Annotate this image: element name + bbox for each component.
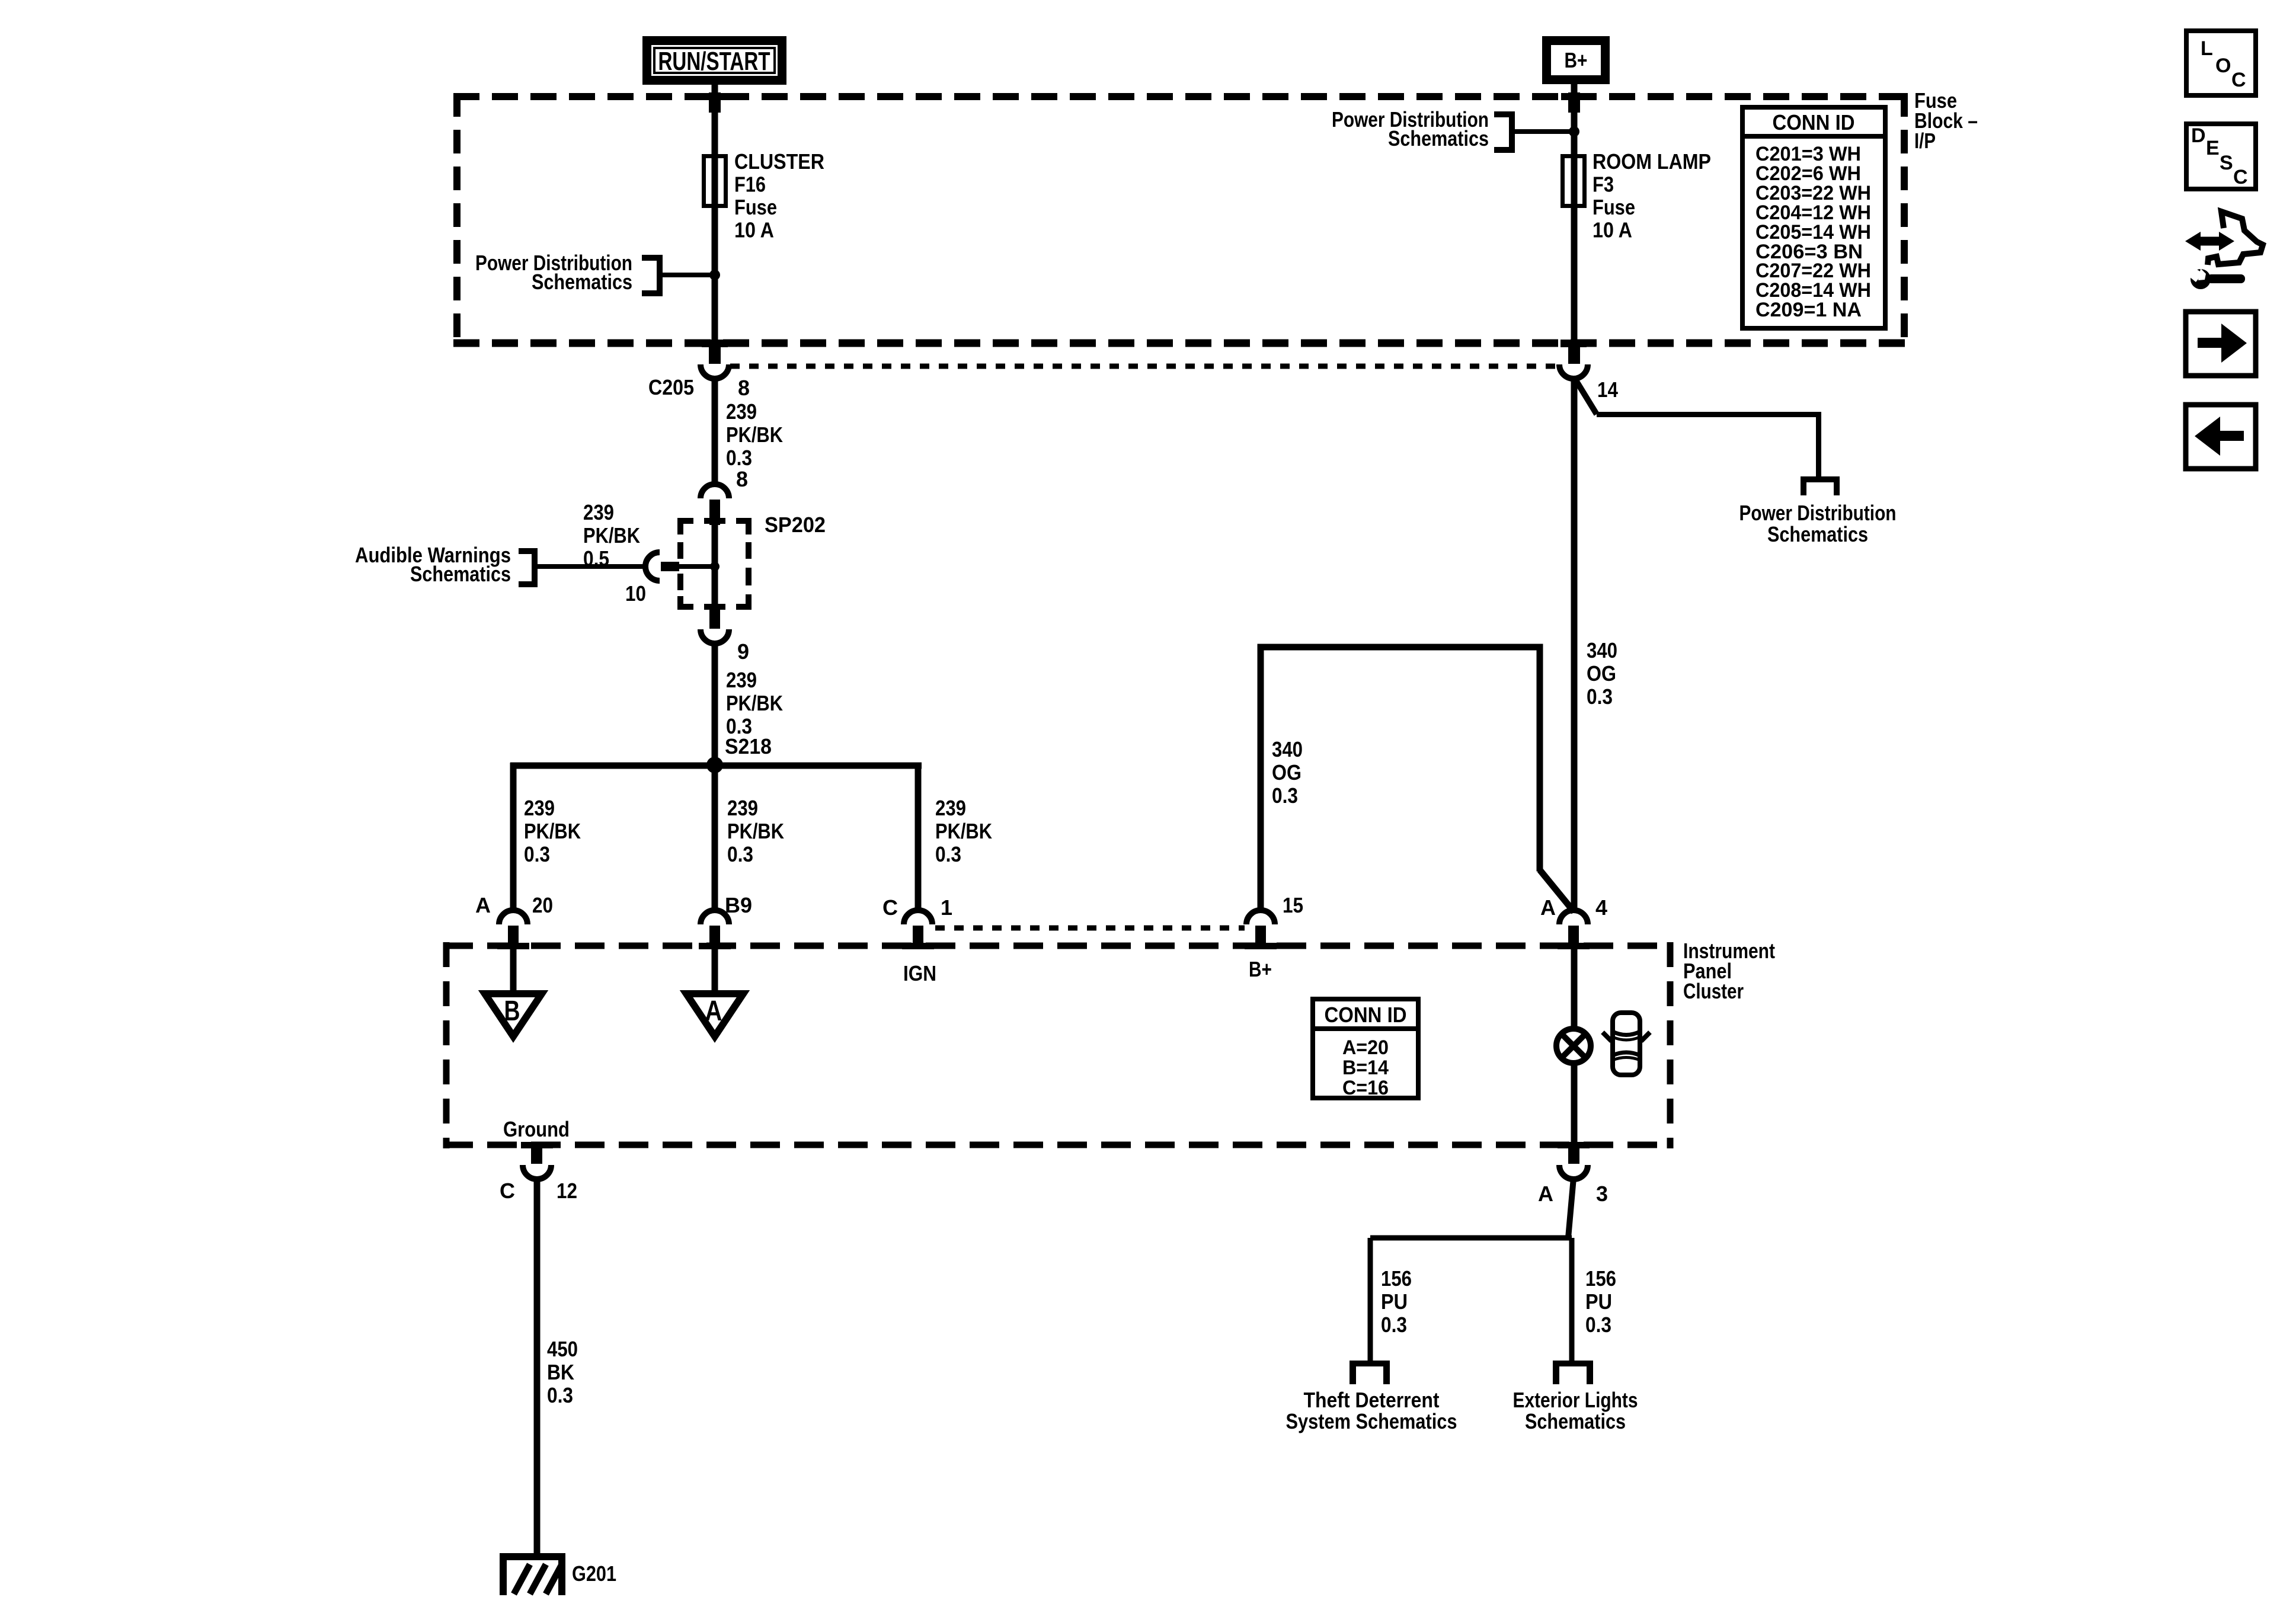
svg-text:239: 239 <box>726 668 757 692</box>
Instrument Panel Cluster dashed box <box>443 942 1673 1148</box>
svg-text:0.3: 0.3 <box>524 842 550 866</box>
reference Power Distribution Schematics (left) <box>475 251 715 296</box>
ground G201 <box>500 1553 565 1595</box>
svg-text:PK/BK: PK/BK <box>583 523 640 548</box>
reference Audible Warnings Schematics <box>355 543 645 587</box>
svg-text:L: L <box>2201 37 2213 60</box>
wire 9 to S218 <box>712 642 718 766</box>
svg-text:156: 156 <box>1585 1266 1616 1291</box>
connector 10 (cup and stub, horizontal) <box>645 552 712 581</box>
svg-text:A: A <box>475 893 491 917</box>
wire crossing ticks on dashed borders <box>497 93 1590 1148</box>
CONN ID table (cluster) <box>1313 999 1418 1099</box>
svg-text:D: D <box>2191 124 2206 147</box>
svg-text:10 A: 10 A <box>734 218 774 242</box>
wire label 239 PK/BK 0.3 (circuit 239 upper) <box>726 399 783 470</box>
svg-text:239: 239 <box>726 399 757 424</box>
connector C1 (dome and stub) <box>904 910 932 949</box>
svg-text:PK/BK: PK/BK <box>524 819 581 843</box>
wire RUN/START to fuse F16 <box>709 85 721 345</box>
svg-text:10 A: 10 A <box>1593 218 1632 242</box>
svg-text:PK/BK: PK/BK <box>726 422 783 447</box>
off-page bracket (power distribution right) <box>1801 476 1840 495</box>
svg-text:239: 239 <box>727 796 758 820</box>
svg-text:PK/BK: PK/BK <box>935 819 992 843</box>
svg-text:Exterior Lights: Exterior Lights <box>1513 1388 1638 1412</box>
wire 14 branch to power distribution <box>1574 377 1821 478</box>
wire label 239 PK/BK 0.3 (circuit 239 lower) <box>726 668 783 738</box>
svg-text:450: 450 <box>547 1337 578 1361</box>
svg-text:PU: PU <box>1381 1289 1408 1314</box>
icon LOC box <box>2186 31 2256 95</box>
dotted line C205 to 14 <box>730 364 1559 369</box>
svg-text:CLUSTER: CLUSTER <box>734 149 824 174</box>
svg-text:340: 340 <box>1587 638 1617 662</box>
wire A20 to triangle B <box>510 949 517 994</box>
svg-text:12: 12 <box>557 1179 577 1203</box>
wire C205 to connector 8 <box>712 377 718 485</box>
junction on B+ wire <box>1569 126 1579 137</box>
svg-text:C: C <box>2231 69 2246 91</box>
wire label 156 PU 0.3 (left) <box>1381 1266 1412 1337</box>
CONN ID table (fuse block) <box>1742 107 1885 328</box>
icon back arrow box <box>2186 405 2256 469</box>
svg-text:SP202: SP202 <box>765 513 826 537</box>
svg-text:239: 239 <box>524 796 555 820</box>
svg-text:ROOM LAMP: ROOM LAMP <box>1593 149 1711 174</box>
svg-text:C: C <box>882 895 898 920</box>
wire S218 horizontal <box>510 763 922 769</box>
svg-text:F3: F3 <box>1593 172 1614 197</box>
wire branch middle (to A triangle) <box>712 766 718 911</box>
svg-text:10: 10 <box>625 581 646 606</box>
off-page bracket (exterior lights) <box>1553 1361 1593 1384</box>
splice junction SP202 <box>710 562 720 571</box>
triangle A (ground reference) <box>686 994 743 1036</box>
wire label 239 PK/BK 0.3 (right branch) <box>935 796 992 866</box>
svg-text:B=14: B=14 <box>1342 1057 1389 1079</box>
connector A4 (dome and stub) <box>1559 910 1588 949</box>
fuse F3 <box>1563 156 1585 206</box>
wire label 239 PK/BK 0.3 (left branch) <box>524 796 581 866</box>
svg-text:20: 20 <box>532 893 553 917</box>
svg-text:OG: OG <box>1587 661 1616 686</box>
fuse F16 <box>704 156 726 206</box>
svg-text:A=20: A=20 <box>1342 1036 1389 1059</box>
svg-text:Schematics: Schematics <box>1388 126 1489 151</box>
connector C205 pin 8 (stub and cup) <box>701 340 729 379</box>
label ROOM LAMP F3 Fuse 10 A <box>1593 149 1711 242</box>
wire label 239 PK/BK 0.5 <box>583 500 640 571</box>
svg-text:239: 239 <box>583 500 614 524</box>
svg-text:CONN ID: CONN ID <box>1773 110 1855 135</box>
svg-text:Theft Deterrent: Theft Deterrent <box>1304 1388 1440 1412</box>
svg-text:3: 3 <box>1596 1182 1608 1206</box>
svg-text:Cluster: Cluster <box>1683 979 1744 1003</box>
wire B+ to fuse F3 <box>1568 84 1580 345</box>
svg-text:S: S <box>2220 152 2233 174</box>
svg-text:Ground: Ground <box>503 1117 570 1141</box>
wire through SP202 <box>712 524 718 607</box>
svg-text:Schematics: Schematics <box>410 562 511 586</box>
svg-text:340: 340 <box>1272 737 1303 761</box>
svg-text:0.3: 0.3 <box>547 1383 573 1407</box>
connector 9 (stub and cup) <box>701 606 729 644</box>
wire label 340 OG 0.3 (loop) <box>1272 737 1303 808</box>
connector 8 (dome and stub) <box>701 484 729 525</box>
power node B+ <box>1542 36 1610 84</box>
label Instrument Panel Cluster <box>1683 939 1775 1003</box>
svg-text:A: A <box>705 996 722 1027</box>
svg-text:15: 15 <box>1283 893 1303 917</box>
power node RUN/START <box>642 36 786 85</box>
wire lamp to A3 <box>1571 1063 1578 1146</box>
svg-text:PU: PU <box>1585 1289 1612 1314</box>
svg-text:Schematics: Schematics <box>1767 522 1868 546</box>
splice SP202 dashed box <box>677 518 752 610</box>
svg-text:Schematics: Schematics <box>532 270 632 294</box>
svg-text:Fuse: Fuse <box>734 195 777 219</box>
off-page bracket (theft deterrent) <box>1350 1361 1390 1384</box>
connector B9 (dome and stub) <box>701 910 729 949</box>
svg-text:System Schematics: System Schematics <box>1286 1409 1457 1433</box>
svg-text:0.3: 0.3 <box>1272 783 1298 808</box>
svg-text:B9: B9 <box>725 893 752 917</box>
wire 14 to A4 <box>1571 377 1578 911</box>
svg-text:B+: B+ <box>1249 957 1272 981</box>
icon DESC box <box>2186 124 2256 189</box>
label Fuse Block - I/P <box>1914 88 1978 153</box>
reference Power Distribution Schematics (top right) <box>1332 107 1574 153</box>
svg-text:IGN: IGN <box>903 961 936 985</box>
wire 15 loop up and over to A4 <box>1258 644 1575 913</box>
svg-text:14: 14 <box>1597 377 1618 402</box>
splice S218 <box>706 757 723 773</box>
wire label 450 BK 0.3 <box>547 1337 578 1407</box>
wire branch right (to IGN) <box>915 766 922 911</box>
svg-text:Power Distribution: Power Distribution <box>1739 501 1897 525</box>
connector 15 (dome and stub) <box>1246 910 1275 949</box>
svg-text:0.3: 0.3 <box>726 446 752 470</box>
svg-text:PK/BK: PK/BK <box>726 691 783 715</box>
svg-text:C: C <box>500 1179 515 1203</box>
reference Theft Deterrent System Schematics <box>1286 1388 1457 1433</box>
svg-text:8: 8 <box>736 467 748 491</box>
svg-text:0.3: 0.3 <box>727 842 753 866</box>
connector A3 (stub and cup) <box>1559 1145 1588 1179</box>
reference Power Distribution Schematics (mid right) <box>1739 501 1897 546</box>
dotted line C1 to 15 <box>935 926 1245 931</box>
svg-text:PK/BK: PK/BK <box>727 819 784 843</box>
svg-text:CONN ID: CONN ID <box>1325 1003 1407 1027</box>
svg-text:G201: G201 <box>572 1561 616 1586</box>
svg-text:O: O <box>2215 55 2231 77</box>
svg-text:239: 239 <box>935 796 966 820</box>
svg-text:1: 1 <box>941 895 952 920</box>
svg-text:C205: C205 <box>648 375 694 399</box>
svg-text:8: 8 <box>738 376 750 400</box>
junction on RUN/START wire <box>709 270 720 280</box>
triangle B (ground reference) <box>485 994 542 1036</box>
icon forward arrow box <box>2186 312 2256 376</box>
svg-text:4: 4 <box>1595 895 1607 920</box>
wire label 239 PK/BK 0.3 (middle branch) <box>727 796 784 866</box>
wire label 340 OG 0.3 (room lamp feed) <box>1587 638 1617 709</box>
svg-text:F16: F16 <box>734 172 766 197</box>
svg-text:I/P: I/P <box>1914 129 1936 153</box>
wire label 156 PU 0.3 (right) <box>1585 1266 1616 1337</box>
wire branch left (to B triangle) <box>510 763 517 911</box>
reference Exterior Lights Schematics <box>1513 1388 1638 1433</box>
connector 14 (stub and cup) <box>1559 340 1588 379</box>
svg-text:0.5: 0.5 <box>583 546 609 571</box>
wire A3 split to two branches <box>1368 1178 1575 1363</box>
car icon <box>1603 1013 1650 1075</box>
svg-text:0.3: 0.3 <box>1587 684 1613 709</box>
svg-text:OG: OG <box>1272 760 1302 785</box>
svg-text:BK: BK <box>547 1360 574 1384</box>
svg-text:0.3: 0.3 <box>1381 1313 1407 1337</box>
label CLUSTER F16 Fuse 10 A <box>734 149 824 242</box>
Fuse Block I/P dashed box <box>453 93 1908 347</box>
connector A20 (dome and stub) <box>499 910 527 949</box>
svg-text:0.3: 0.3 <box>1585 1313 1611 1337</box>
connector C12 (stub and cup) <box>523 1145 551 1179</box>
svg-text:156: 156 <box>1381 1266 1412 1291</box>
svg-text:B: B <box>504 996 520 1027</box>
svg-text:0.3: 0.3 <box>935 842 961 866</box>
svg-text:A: A <box>1538 1182 1553 1206</box>
svg-text:9: 9 <box>737 639 749 664</box>
svg-text:C209=1 NA: C209=1 NA <box>1755 299 1862 321</box>
svg-text:E: E <box>2206 137 2220 159</box>
svg-text:Schematics: Schematics <box>1525 1409 1626 1433</box>
lamp (indicator bulb) <box>1556 1029 1591 1063</box>
svg-text:RUN/START: RUN/START <box>658 47 770 76</box>
svg-text:A: A <box>1540 895 1556 920</box>
svg-text:Fuse: Fuse <box>1593 195 1635 219</box>
wire A4 to lamp <box>1571 949 1578 1029</box>
icon electrical diagnosis (arrow and wrench) <box>2185 212 2263 289</box>
svg-text:S218: S218 <box>725 734 772 758</box>
svg-text:B+: B+ <box>1565 48 1588 72</box>
svg-text:C: C <box>2233 166 2248 188</box>
wire C12 to G201 <box>534 1178 541 1553</box>
wire B9 to triangle A <box>712 949 718 994</box>
svg-text:C=16: C=16 <box>1342 1077 1389 1099</box>
